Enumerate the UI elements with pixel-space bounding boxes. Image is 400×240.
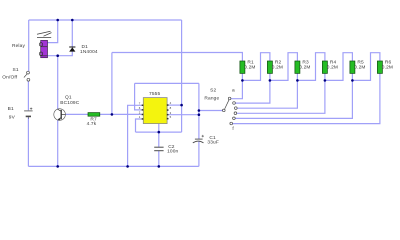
- resistor R4 0.2M: [322, 61, 327, 73]
- node R4 bottom: [324, 79, 327, 82]
- wire link R1-R2: [242, 53, 270, 81]
- pin labels left: [139, 101, 141, 119]
- node top rail / relay branch: [56, 19, 59, 22]
- node relay bottom / collector: [56, 54, 59, 57]
- svg-text:B1: B1: [8, 106, 14, 112]
- wire R7-node up to range rail: [111, 53, 113, 115]
- resistor R6 0.2M: [377, 61, 382, 73]
- svg-text:4.7k: 4.7k: [87, 121, 97, 127]
- capacitor C1 33uF electrolytic: [193, 135, 204, 143]
- wire pin L2 riser: [135, 83, 142, 110]
- node ground / pin L1 drop: [126, 165, 129, 168]
- battery B1 9V: [24, 108, 32, 119]
- svg-text:4: 4: [170, 101, 172, 105]
- wire R2 lead bottom: [269, 73, 271, 80]
- wire contact f to R6 bottom: [233, 73, 380, 123]
- switch S1 On/Off: [24, 71, 30, 81]
- wire top +9V rail: [29, 19, 182, 21]
- svg-text:Range: Range: [204, 95, 219, 101]
- pin R2 stub: [167, 109, 169, 111]
- svg-text:0.2M: 0.2M: [354, 64, 365, 70]
- capacitor C2 100n: [154, 147, 163, 151]
- node top rail / diode branch: [71, 19, 74, 22]
- svg-text:7555: 7555: [149, 91, 160, 97]
- node R5 bottom: [351, 79, 354, 82]
- svg-text:On/Off: On/Off: [2, 75, 17, 81]
- wire S1 to battery: [27, 81, 29, 110]
- op-amp U1 7555 timer body: [143, 98, 167, 124]
- node R1 bottom: [241, 79, 244, 82]
- svg-text:8: 8: [170, 106, 172, 110]
- node ground / C2: [158, 165, 161, 168]
- wire pin R1 to 9V drop: [167, 104, 181, 106]
- wire relay coil top to rail: [48, 20, 58, 43]
- pin R4 stub: [167, 118, 169, 120]
- svg-text:1: 1: [139, 115, 141, 119]
- resistor R2 0.2M: [267, 61, 272, 73]
- wire bottom ground rail: [28, 165, 198, 167]
- wire C2 top lead: [158, 132, 160, 147]
- pin L3 stub: [142, 114, 144, 116]
- wire R1 lead bottom: [241, 73, 243, 80]
- svg-text:0.2M: 0.2M: [299, 64, 310, 70]
- svg-text:f: f: [232, 126, 234, 132]
- diode D1 1N4004: [69, 47, 75, 52]
- wire contact d to R4 bottom: [237, 80, 325, 113]
- svg-text:6: 6: [139, 106, 141, 110]
- node pin R1 / 9V drop: [180, 104, 183, 107]
- wire S2 pole feed: [199, 110, 223, 112]
- pin L1 stub: [142, 105, 144, 107]
- wire contact a to R1 bottom: [231, 80, 243, 98]
- svg-text:BC109C: BC109C: [60, 100, 79, 106]
- wire left rail upper (to S1): [28, 20, 30, 71]
- wire contact b to R2 bottom: [235, 80, 270, 103]
- node R3 bottom: [296, 79, 299, 82]
- svg-text:5: 5: [170, 115, 172, 119]
- wire link R4-R5: [325, 53, 353, 81]
- node pin R3 / timing: [198, 113, 201, 116]
- resistor R7 4.7k: [88, 113, 100, 117]
- wire range rail to R1 top: [112, 53, 243, 62]
- wire C1 bottom lead to ground rail: [198, 142, 200, 167]
- relay RL1 contact armature: [37, 31, 52, 37]
- svg-text:a: a: [232, 88, 235, 93]
- wire over-chip timing node: [135, 82, 199, 84]
- svg-text:S2: S2: [210, 87, 216, 93]
- svg-text:2: 2: [139, 111, 141, 115]
- wire Q1 collector: [57, 56, 59, 109]
- wire relay coil bottom to diode anode: [48, 52, 73, 56]
- pin R3 stub: [167, 114, 169, 116]
- wire link R3-R4: [297, 53, 325, 81]
- pin R1 stub: [167, 104, 169, 106]
- pin L2 stub: [142, 109, 144, 111]
- wire R5 lead bottom: [351, 73, 353, 80]
- relay RL1 coil: [39, 40, 47, 57]
- wire R4 lead bottom: [324, 73, 326, 80]
- svg-text:33uF: 33uF: [207, 140, 219, 146]
- svg-text:0.2M: 0.2M: [327, 64, 338, 70]
- wire Q1 emitter to ground rail: [57, 120, 59, 166]
- wire Q1 base to R7: [65, 113, 88, 115]
- svg-text:100n: 100n: [167, 149, 178, 155]
- wire link R5-R6: [352, 53, 380, 81]
- wire 9V drop from top rail: [181, 20, 183, 132]
- wire contact e to R5 bottom: [235, 80, 352, 118]
- svg-text:9V: 9V: [9, 115, 16, 121]
- pin labels right: [170, 101, 172, 119]
- wire diode cathode to top rail: [71, 20, 73, 47]
- wire chip bottom pin to junction: [158, 124, 160, 133]
- wire pin L4 link: [136, 119, 142, 132]
- resistor R5 0.2M: [350, 61, 355, 73]
- node ground / emitter: [56, 165, 59, 168]
- svg-text:0.2M: 0.2M: [272, 64, 283, 70]
- node S2 pole feed: [198, 109, 201, 112]
- svg-text:0.2M: 0.2M: [244, 64, 255, 70]
- switch S2 rotary range: [223, 97, 238, 125]
- resistor R3 0.2M: [295, 61, 300, 73]
- svg-text:Q1: Q1: [65, 95, 72, 101]
- wire link R2-R3: [270, 53, 298, 81]
- svg-text:Relay: Relay: [12, 43, 25, 49]
- wire R3 lead bottom: [296, 73, 298, 80]
- svg-text:0.2M: 0.2M: [382, 64, 393, 70]
- pin L4 stub: [142, 118, 144, 120]
- wire battery to bottom rail: [27, 117, 29, 166]
- wire R7 to 7555 pin L3: [100, 113, 142, 115]
- transistor Q1 BC109C: [54, 109, 66, 121]
- svg-text:1N4004: 1N4004: [80, 49, 98, 55]
- wire timing node drop to C1: [198, 83, 200, 139]
- wire C2 bottom lead: [158, 151, 160, 166]
- wire chip bottom horizontal: [136, 131, 182, 133]
- wire contact c to R3 bottom: [237, 80, 297, 108]
- node R7 / pin L3 / range rail: [111, 113, 114, 116]
- node R2 bottom: [269, 79, 272, 82]
- wire pin R3 to timing node: [167, 114, 199, 116]
- node chip bottom junction: [158, 131, 161, 134]
- wire pin L1 to ground: [128, 105, 142, 166]
- svg-text:S1: S1: [13, 67, 19, 73]
- resistor R1 0.2M: [240, 61, 245, 73]
- svg-text:7: 7: [139, 101, 141, 105]
